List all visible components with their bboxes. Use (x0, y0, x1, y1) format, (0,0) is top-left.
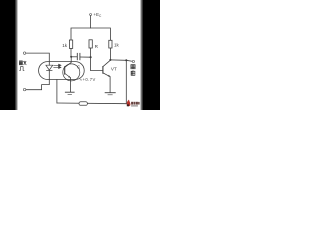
wire mid branch below R (90, 48, 92, 57)
wire input top (26, 53, 49, 65)
wire top supply bus (71, 28, 110, 40)
wire right riser (125, 60, 127, 103)
ground (VT emitter) (105, 93, 116, 95)
input waveform (19, 67, 24, 71)
wire photo collector (65, 57, 71, 67)
terminal +Ec (90, 14, 92, 16)
wire LED cathode to lower input terminal (26, 70, 49, 89)
resistor R1 1k (69, 40, 72, 48)
wire bottom bus (57, 102, 126, 105)
svg-text:1k: 1k (114, 42, 120, 47)
terminal input bottom (23, 88, 26, 91)
svg-text:R: R (95, 44, 99, 49)
optocoupler package (39, 62, 85, 80)
svg-text:+EC: +EC (93, 12, 102, 18)
wire mid branch to VT base (91, 57, 103, 70)
wire cap row right (80, 56, 91, 58)
wire photo emitter down (69, 78, 71, 92)
terminal input top (23, 52, 25, 54)
wire opto pin to bottom bus (56, 80, 58, 103)
label input (Chinese) (19, 61, 26, 65)
load (inline component on bottom bus) (79, 102, 87, 106)
node C (collector/output junction) (109, 59, 111, 61)
left black margin (0, 0, 15, 110)
wire output (110, 60, 132, 61)
capacitor C plates (77, 53, 80, 60)
node B (R/C/base junction) (90, 56, 92, 58)
phototransistor (63, 64, 80, 81)
label output (Chinese, vertical) (131, 65, 135, 76)
svg-text:C: C (77, 64, 80, 69)
LED (opto emitter) (46, 65, 53, 70)
light arrows (53, 64, 61, 68)
right black margin (140, 0, 143, 110)
resistor R (89, 40, 92, 48)
node D (output/bus junction) (125, 59, 127, 61)
wire right branch below R3 (109, 48, 111, 60)
terminal output (132, 60, 134, 62)
node A (R1/C/collector junction) (70, 56, 72, 58)
wire left branch below R1 (70, 49, 72, 57)
transistor VT (103, 60, 111, 77)
ground (opto emitter) (65, 92, 75, 94)
wire +Ec stem (90, 16, 92, 28)
svg-text:1k: 1k (62, 43, 68, 48)
wire cap row left (71, 56, 77, 58)
svg-text:VT: VT (111, 67, 117, 72)
resistor R3 1k (109, 40, 112, 48)
svg-text:≈+0.7V: ≈+0.7V (80, 77, 96, 82)
watermark logo (127, 100, 142, 107)
wire VT emitter down (109, 77, 111, 93)
